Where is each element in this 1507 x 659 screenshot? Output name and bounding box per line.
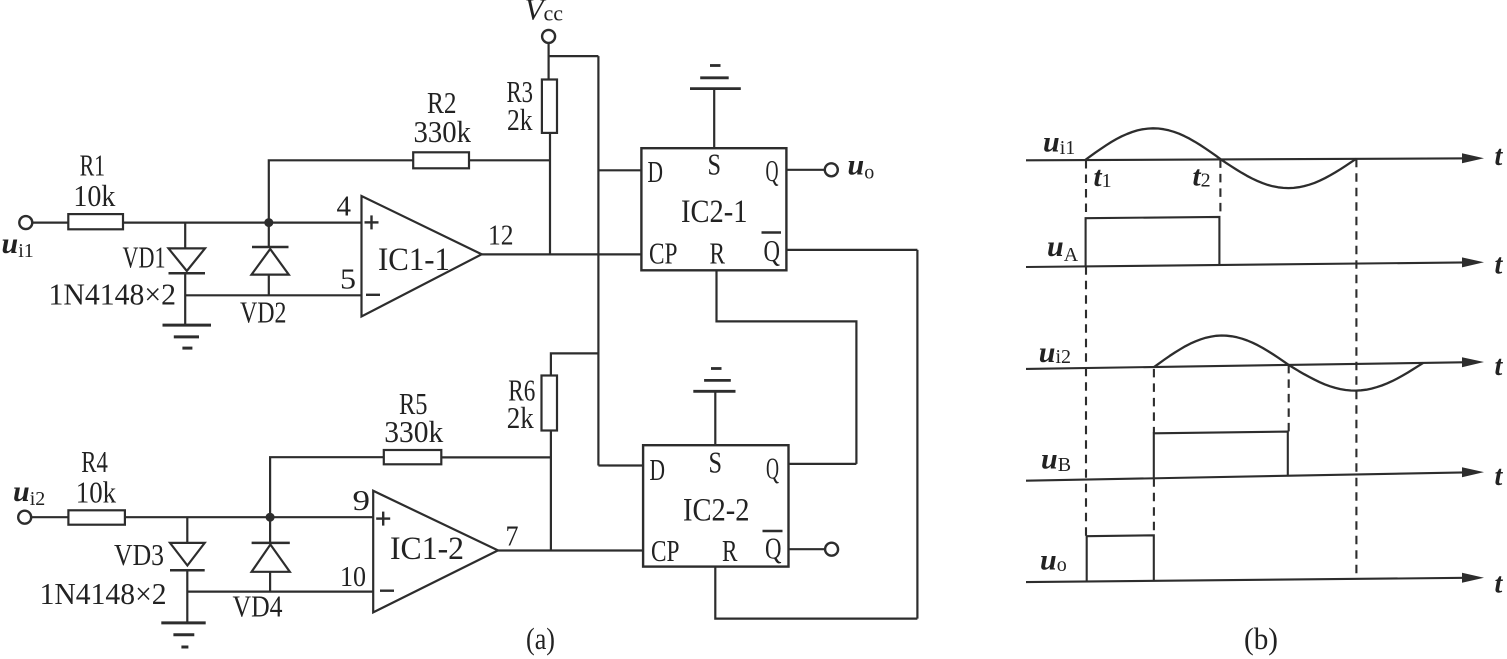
wire Qbar of IC2-2 to terminal bbox=[789, 548, 826, 550]
wire Vcc branch to rail bbox=[549, 55, 599, 57]
wire R3 lead down to output node bbox=[549, 133, 551, 255]
wire feedback node up to R5 bbox=[270, 457, 384, 517]
svg-text:IC1-1: IC1-1 bbox=[378, 242, 450, 278]
svg-text:Q: Q bbox=[765, 531, 782, 566]
diode VD3 bbox=[170, 517, 205, 623]
dashed line (u_i2 zero cross) bbox=[1288, 365, 1290, 432]
svg-text:t: t bbox=[1495, 250, 1504, 281]
svg-text:S: S bbox=[709, 445, 723, 480]
op-amp IC1-1 bbox=[362, 196, 482, 317]
svg-text:IC1-2: IC1-2 bbox=[390, 531, 464, 567]
svg-text:Q: Q bbox=[766, 451, 779, 486]
wire R6 jog to Vcc rail bbox=[551, 353, 599, 375]
svg-text:Vcc: Vcc bbox=[525, 0, 564, 27]
label Qbar (IC2-1) bbox=[762, 233, 782, 269]
resistor R6 bbox=[542, 376, 558, 431]
svg-text:R: R bbox=[722, 533, 738, 568]
wire R2 to R3 node bbox=[469, 159, 550, 161]
wire R of IC2-1 to Q of IC2-2 bbox=[717, 270, 857, 464]
svg-text:VD1: VD1 bbox=[123, 240, 166, 275]
svg-text:12: 12 bbox=[488, 221, 514, 252]
svg-text:(b): (b) bbox=[1244, 621, 1278, 656]
ground (above S of IC2-1, inverted) bbox=[690, 66, 741, 89]
wire Q of IC2-2 to link rail bbox=[789, 463, 857, 465]
flip-flop IC2-1 box bbox=[641, 148, 786, 270]
wire R6 lead down to output node bbox=[550, 431, 552, 551]
svg-text:1N4148×2: 1N4148×2 bbox=[40, 576, 167, 611]
terminal Qbar output (IC2-2) bbox=[825, 543, 838, 556]
svg-text:2k: 2k bbox=[507, 400, 534, 435]
flip-flop IC2-2 box bbox=[643, 445, 788, 566]
svg-text:R: R bbox=[710, 236, 726, 271]
resistor R1 bbox=[68, 214, 123, 229]
wire R4 to op-amp pin 9 bbox=[125, 516, 373, 518]
svg-text:CP: CP bbox=[649, 236, 678, 271]
wire R of IC2-2 to Qbar rail bbox=[715, 567, 917, 619]
axis t (row 3) bbox=[1026, 351, 1504, 382]
svg-text:7: 7 bbox=[506, 522, 519, 553]
wire feedback node up to R2 bbox=[269, 160, 413, 222]
svg-text:10k: 10k bbox=[76, 475, 117, 510]
dashed line (u_i2 start) bbox=[1153, 369, 1155, 535]
pulse u_o (waveform) bbox=[1087, 535, 1154, 581]
pulse u_B bbox=[1154, 432, 1288, 479]
label Qbar (IC2-2) bbox=[763, 531, 783, 566]
svg-text:2k: 2k bbox=[507, 102, 533, 137]
svg-text:CP: CP bbox=[651, 533, 680, 568]
terminal Vcc bbox=[542, 30, 555, 43]
op-amp IC1-2 minus sign bbox=[380, 590, 394, 592]
svg-text:t: t bbox=[1495, 461, 1504, 492]
svg-text:Q: Q bbox=[764, 233, 781, 268]
svg-text:IC2-2: IC2-2 bbox=[683, 493, 750, 529]
svg-text:5: 5 bbox=[340, 265, 356, 296]
diode VD4 bbox=[252, 517, 290, 591]
resistor R5 bbox=[384, 450, 442, 464]
dashed line (end of u_i1 period) bbox=[1355, 159, 1357, 579]
svg-text:IC2-1: IC2-1 bbox=[681, 194, 748, 230]
terminal input u_i2 bbox=[18, 511, 31, 524]
axis t (row 1) bbox=[1026, 141, 1504, 172]
svg-text:t: t bbox=[1495, 351, 1504, 382]
wire Qbar rail down to R of IC2-2 link bbox=[916, 250, 918, 619]
resistor R4 bbox=[68, 510, 125, 524]
svg-text:10k: 10k bbox=[73, 178, 115, 213]
svg-text:VD3: VD3 bbox=[114, 537, 164, 572]
wire IC1-1 output to CP of IC2-1 bbox=[482, 253, 642, 255]
resistor R2 bbox=[413, 152, 469, 168]
op-amp IC1-1 minus sign bbox=[366, 294, 380, 296]
svg-text:1N4148×2: 1N4148×2 bbox=[49, 277, 177, 312]
svg-text:330k: 330k bbox=[414, 114, 472, 149]
wire IC1-2 output to CP of IC2-2 bbox=[498, 549, 643, 551]
pulse u_A bbox=[1086, 217, 1220, 266]
ground (under VD3) bbox=[161, 623, 205, 647]
ground (under VD1) bbox=[163, 325, 212, 348]
svg-text:S: S bbox=[708, 147, 722, 182]
wire terminal to R4 bbox=[31, 516, 69, 518]
axis t (row 5) bbox=[1026, 569, 1504, 600]
axis t (row 2) bbox=[1026, 250, 1504, 281]
node junction VD2 tap bbox=[264, 218, 273, 227]
dashed line t1 bbox=[1085, 160, 1087, 536]
op-amp IC1-2 bbox=[373, 491, 498, 613]
resistor R3 bbox=[542, 80, 557, 133]
node junction VD4 tap bbox=[266, 513, 275, 522]
diode VD2 bbox=[252, 223, 289, 296]
svg-text:Q: Q bbox=[766, 153, 779, 188]
wire terminal to R1 bbox=[32, 222, 69, 224]
ground (above S of IC2-2, inverted) bbox=[693, 369, 735, 392]
terminal output u_o bbox=[825, 163, 838, 176]
wire rail to D of IC2-1 bbox=[598, 169, 641, 171]
svg-text:VD2: VD2 bbox=[240, 295, 287, 330]
svg-text:D: D bbox=[648, 154, 664, 189]
wire rail to D of IC2-2 bbox=[598, 464, 643, 466]
sine wave u_i2 bbox=[1154, 336, 1423, 391]
wire Qbar of IC2-1 right bbox=[786, 249, 917, 251]
wire diodes to op-amp pin 10 bbox=[187, 590, 373, 592]
diode VD1 bbox=[169, 223, 206, 326]
sine wave u_i1 bbox=[1085, 128, 1356, 188]
svg-text:VD4: VD4 bbox=[233, 589, 283, 624]
svg-text:t: t bbox=[1495, 569, 1504, 600]
svg-text:330k: 330k bbox=[384, 414, 443, 449]
wire diodes to op-amp pin 5 bbox=[185, 294, 361, 296]
svg-text:D: D bbox=[650, 452, 666, 487]
axis t (row 4) bbox=[1026, 461, 1504, 492]
wire R5 to R6 lead bbox=[441, 456, 551, 458]
terminal input u_i1 bbox=[19, 216, 32, 229]
svg-text:10: 10 bbox=[340, 562, 366, 593]
wire S of IC2-2 up to ground bbox=[714, 391, 716, 445]
dashed line t2 bbox=[1219, 159, 1221, 217]
wire Q of IC2-1 to output terminal bbox=[786, 169, 824, 171]
svg-text:t: t bbox=[1495, 141, 1504, 172]
svg-text:9: 9 bbox=[353, 486, 371, 517]
wire Vcc rail down to D of IC2-2 bbox=[597, 56, 599, 465]
wire Vcc down to R3 bbox=[547, 43, 549, 80]
op-amp IC1-2 plus sign bbox=[376, 512, 390, 526]
svg-text:4: 4 bbox=[337, 192, 352, 223]
wire R1 to op-amp pin 4 bbox=[123, 222, 362, 224]
op-amp IC1-1 plus sign bbox=[365, 215, 379, 229]
wire S of IC2-1 up to ground bbox=[713, 89, 715, 149]
svg-text:(a): (a) bbox=[526, 621, 555, 656]
